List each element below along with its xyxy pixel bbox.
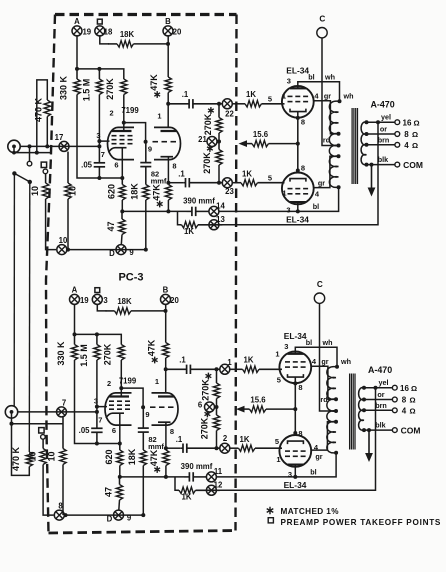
wire blk to COM	[364, 429, 392, 431]
wire 47K to plate node	[165, 358, 167, 369]
svg-text:11: 11	[214, 467, 223, 476]
resistor 1K upper	[230, 356, 282, 373]
transformer core laminations	[350, 374, 355, 450]
wire 47Kc down	[167, 200, 169, 211]
eyelet 17 (input)	[59, 141, 69, 151]
svg-text:5: 5	[275, 437, 279, 446]
svg-text:8: 8	[402, 396, 407, 405]
svg-text:COM: COM	[403, 160, 423, 170]
svg-text:8: 8	[404, 130, 409, 139]
eyelet 1	[220, 364, 230, 374]
svg-text:270K: 270K	[102, 343, 112, 365]
junction 47Kc bottom	[164, 475, 168, 479]
wire plate bl/wh to transformer	[295, 347, 337, 367]
svg-text:470 K: 470 K	[11, 446, 21, 471]
svg-text:wh: wh	[324, 72, 335, 81]
wire triode cathode to .1	[166, 447, 181, 449]
svg-text:wh: wh	[343, 91, 354, 100]
svg-text:6: 6	[198, 400, 203, 409]
wire screen gr to tap	[311, 366, 336, 399]
junction secondary or	[362, 398, 366, 402]
wire to eyelet 22	[219, 103, 222, 105]
svg-text:1K: 1K	[184, 227, 194, 236]
transformer core laminations	[352, 108, 357, 184]
svg-text:390 mmf: 390 mmf	[183, 197, 215, 206]
svg-text:22: 22	[225, 110, 234, 119]
svg-text:A-470: A-470	[371, 100, 395, 110]
svg-text:1: 1	[275, 350, 279, 359]
svg-text:47K: 47K	[149, 449, 159, 466]
tube 7199 pentode section envelope	[108, 127, 135, 159]
wire 14 line out	[219, 210, 298, 212]
eyelet 19 (A)	[72, 26, 82, 36]
svg-text:10: 10	[47, 451, 57, 461]
svg-text:or: or	[380, 125, 387, 134]
wire 47 to D9	[120, 235, 123, 245]
junction secondary or	[365, 132, 369, 136]
svg-text:EL-34: EL-34	[286, 215, 309, 225]
wire screen gr to tap	[314, 101, 339, 134]
takeoff circle 2	[43, 169, 48, 174]
eyelet B 20	[161, 294, 171, 304]
wire ground line	[14, 146, 51, 152]
jack ground lead	[12, 151, 16, 155]
svg-text:7: 7	[98, 415, 102, 424]
wire 470K loop top	[37, 80, 48, 153]
resistor 1K upper	[232, 90, 284, 107]
junction switch lower	[28, 180, 32, 184]
EL-34 upper cathode	[290, 109, 306, 112]
tube EL-34 upper envelope	[282, 86, 314, 118]
svg-text:gr: gr	[315, 452, 322, 461]
resistor 47	[103, 477, 122, 500]
wire lower screen gr	[311, 422, 336, 450]
junction 23 line	[217, 181, 221, 185]
tube EL-34 upper envelope	[279, 351, 311, 383]
junction bus/10R	[66, 248, 70, 252]
svg-text:A-470: A-470	[368, 365, 392, 375]
svg-text:15.6: 15.6	[250, 396, 266, 405]
svg-text:or: or	[377, 390, 384, 399]
wire brn to 4ohm	[364, 409, 392, 411]
junction pin8 lower	[296, 169, 300, 173]
junction B/18K	[164, 309, 168, 313]
wire A19 down	[74, 304, 76, 334]
svg-text:gr: gr	[324, 91, 331, 100]
svg-text:Ω: Ω	[412, 130, 418, 139]
wire pin8 cathode lead	[165, 422, 167, 448]
wire 470K lower loop	[12, 424, 30, 476]
7199 pentode cathode	[106, 413, 124, 418]
junction rail/1.5M	[97, 67, 101, 71]
svg-text:brn: brn	[375, 401, 387, 410]
capacitor .05	[79, 412, 103, 444]
junction plate node	[166, 102, 170, 106]
svg-text:21: 21	[198, 135, 207, 144]
wire 14 line out	[216, 476, 295, 478]
wire yel to 16ohm	[364, 387, 392, 389]
wire coupling plate to triode grid	[121, 388, 143, 407]
capacitor 82mmf	[138, 407, 149, 450]
svg-text:gr: gr	[318, 178, 325, 187]
wire 270K* to eyelet 21	[216, 399, 218, 408]
EL-34 lower plate	[288, 464, 304, 466]
svg-text:blk: blk	[375, 421, 385, 430]
svg-text:10: 10	[30, 186, 40, 196]
wire C to center tap rd	[322, 38, 339, 146]
wire switch bus left	[13, 173, 15, 406]
wire plate node to triode plate	[167, 104, 169, 128]
junction primary tap gr lower	[334, 420, 338, 424]
junction 620/47	[118, 475, 122, 479]
junction primary center tap rd	[337, 144, 341, 148]
svg-text:2: 2	[107, 379, 111, 388]
wire pin3 grid lead	[97, 407, 107, 412]
svg-text:6: 6	[112, 426, 116, 435]
svg-text:13: 13	[216, 215, 225, 224]
svg-text:20: 20	[170, 296, 179, 305]
svg-text:3: 3	[288, 470, 292, 479]
resistor 10 (left)	[30, 174, 49, 200]
svg-text:12: 12	[214, 480, 223, 489]
svg-text:47: 47	[103, 487, 113, 497]
junction secondary brn	[365, 143, 369, 147]
junction feedback/16ohm	[376, 120, 380, 124]
svg-text:A: A	[74, 17, 80, 26]
wire 330K to cathode line	[75, 360, 97, 444]
terminal C	[317, 28, 327, 38]
wire switch bus right	[28, 182, 31, 452]
svg-text:18K: 18K	[127, 448, 137, 465]
svg-text:270K: 270K	[199, 417, 209, 439]
svg-text:EL-34: EL-34	[284, 480, 307, 490]
terminal 16 ohm	[392, 385, 397, 390]
eyelet 23	[222, 178, 232, 188]
eyelet D 9	[116, 245, 126, 255]
svg-text:PREAMP POWER TAKEOFF POINTS: PREAMP POWER TAKEOFF POINTS	[281, 518, 442, 527]
wire lower plate bl	[294, 465, 296, 477]
wire yel to 16ohm	[367, 121, 395, 123]
svg-text:15.6: 15.6	[253, 130, 269, 139]
svg-text:.1: .1	[176, 435, 183, 444]
resistor 1K lower	[230, 435, 282, 451]
transformer A-470 primary winding	[329, 101, 338, 187]
eyelet 2	[220, 443, 230, 453]
wire eyelet-18 to 18K	[97, 304, 106, 311]
wire B20 down	[165, 304, 167, 342]
svg-text:1: 1	[157, 112, 161, 121]
svg-text:.05: .05	[79, 426, 91, 435]
input jack	[5, 406, 17, 418]
svg-text:47: 47	[106, 221, 116, 231]
junction ground/470K	[35, 151, 39, 155]
junction pin8 upper	[296, 116, 300, 120]
svg-text:bl: bl	[306, 338, 312, 347]
junction triode grid	[141, 405, 145, 409]
resistor *47K (cathode)	[152, 183, 172, 208]
capacitor 390 mmf	[181, 462, 213, 482]
input jack	[8, 140, 20, 152]
junction primary bottom	[337, 185, 341, 189]
wire to eyelet 22	[217, 368, 220, 370]
wire 620 to 47	[121, 200, 123, 211]
svg-text:16: 16	[400, 384, 409, 393]
resistor 270K* upper	[203, 104, 222, 135]
EL-34 upper grids dashes	[288, 96, 309, 101]
capacitor .1 lower	[176, 435, 220, 453]
svg-text:Ω: Ω	[413, 118, 419, 127]
junction secondary blk	[362, 428, 366, 432]
junction primary top	[335, 365, 339, 369]
legend matched 1%	[267, 507, 340, 516]
svg-text:620: 620	[106, 184, 116, 199]
junction bus/10R	[64, 513, 68, 517]
terminal 4 ohm	[395, 142, 400, 147]
resistor 270K* lower	[202, 142, 222, 174]
wire 1K jog	[175, 477, 178, 490]
resistor 1.5M	[81, 69, 102, 101]
svg-text:7199: 7199	[119, 377, 137, 386]
svg-text:bl: bl	[313, 202, 319, 211]
wire blk to COM	[367, 164, 395, 166]
wire bias line	[122, 210, 186, 212]
svg-text:Ω: Ω	[409, 407, 415, 416]
junction .05/cathode line	[97, 176, 101, 180]
wire lower plate bl	[297, 202, 299, 211]
resistor 18K (cathode)	[129, 183, 149, 200]
svg-text:gr: gr	[321, 357, 328, 366]
svg-text:47K: 47K	[149, 74, 159, 91]
EL-34 lower cathode	[290, 179, 306, 182]
svg-text:blk: blk	[378, 155, 388, 164]
svg-text:8: 8	[301, 118, 305, 127]
svg-text:1.5 M: 1.5 M	[79, 344, 89, 367]
7199 pentode cathode	[109, 148, 127, 153]
eyelet D 9	[114, 510, 124, 520]
svg-text:10: 10	[68, 186, 78, 196]
svg-text:2: 2	[109, 109, 113, 118]
transformer A-470 secondary winding	[361, 122, 366, 165]
capacitor .1 upper	[168, 90, 219, 109]
eyelet 17 (input)	[57, 407, 67, 417]
wire plate node to triode plate	[165, 369, 167, 393]
jack ground lead	[10, 422, 14, 426]
junction pentode plate	[119, 386, 123, 390]
svg-text:47K: 47K	[147, 339, 157, 356]
resistor 470K (lower input)	[11, 446, 33, 471]
capacitor 82mmf	[140, 142, 151, 185]
junction lower plate	[296, 209, 300, 213]
svg-text:3: 3	[96, 131, 100, 140]
svg-text:5: 5	[268, 94, 272, 103]
wire input hot line	[20, 145, 99, 147]
wire 18K down to bus	[142, 466, 144, 516]
wire pin8 cathode lead	[167, 157, 169, 183]
resistor 620	[106, 178, 125, 200]
capacitor .1 lower	[178, 170, 222, 188]
wire pentode plate lead	[120, 388, 122, 396]
svg-text:7: 7	[101, 150, 105, 159]
ground symbol	[365, 430, 373, 462]
terminal 16 ohm	[395, 120, 400, 125]
svg-text:14: 14	[216, 202, 225, 211]
svg-text:.1: .1	[179, 356, 186, 365]
junction lower plate	[293, 475, 297, 479]
resistor 270K	[105, 78, 127, 100]
wire bias rail	[75, 334, 122, 344]
7199 pentode grid (pin 3) dashes	[109, 401, 130, 409]
svg-text:470 K: 470 K	[34, 97, 44, 122]
resistor 1K feedback	[180, 222, 222, 236]
svg-text:18K: 18K	[117, 297, 132, 306]
svg-text:1K: 1K	[182, 492, 192, 501]
wire lower screen gr	[314, 156, 339, 187]
svg-text:8: 8	[172, 162, 176, 171]
svg-text:rd: rd	[320, 395, 327, 404]
junction cathodes/15.6	[296, 142, 300, 146]
eyelet 11	[206, 472, 216, 482]
junction A/330K	[73, 332, 77, 336]
tube 7199 triode section envelope	[152, 393, 179, 425]
svg-text:EL-34: EL-34	[286, 66, 309, 76]
capacitor .1 upper	[166, 356, 217, 375]
svg-text:PC-3: PC-3	[118, 272, 143, 284]
svg-text:18K: 18K	[129, 183, 139, 200]
tube 7199 pentode section envelope	[105, 393, 132, 425]
wire bl to coil	[298, 187, 339, 211]
svg-text:270K: 270K	[202, 152, 212, 174]
junction 620 top	[120, 176, 124, 180]
svg-text:1.5 M: 1.5 M	[81, 79, 91, 102]
svg-text:1: 1	[155, 377, 159, 386]
svg-text:8: 8	[298, 383, 302, 392]
svg-text:B: B	[163, 286, 169, 295]
wire brn to 4ohm	[367, 144, 395, 146]
wire pin6 cathode lead	[119, 413, 121, 443]
resistor *47K (cathode)	[149, 448, 169, 473]
svg-text:1K: 1K	[246, 90, 256, 99]
eyelet 19 (A)	[70, 294, 80, 304]
resistor *47K (plate load)	[147, 339, 169, 363]
svg-text:390 mmf: 390 mmf	[181, 462, 213, 471]
eyelet 10 (ground)	[54, 510, 64, 520]
wire cathode down	[297, 112, 299, 173]
eyelet 14	[209, 206, 219, 216]
junction triode cathode	[166, 181, 170, 185]
junction switch upper	[12, 171, 16, 175]
terminal 8 ohm	[395, 132, 400, 137]
resistor 47	[106, 211, 125, 234]
junction secondary brn	[362, 408, 366, 412]
wire 330K to cathode line	[77, 95, 99, 179]
wire 47 to D9	[118, 500, 121, 510]
svg-text:D: D	[109, 249, 115, 258]
svg-text:3: 3	[287, 77, 291, 86]
svg-text:16: 16	[403, 118, 412, 127]
junction B/18K	[166, 42, 170, 46]
resistor 330K	[56, 334, 78, 365]
junction triode grid	[144, 140, 148, 144]
resistor 15.6 with ground arrow	[236, 396, 295, 413]
wire ground bus	[67, 249, 146, 251]
transformer A-470 primary winding	[327, 367, 336, 453]
preamp takeoff square marker	[97, 19, 102, 24]
junction pin3	[97, 139, 101, 143]
svg-text:23: 23	[225, 187, 234, 196]
svg-text:bl: bl	[308, 72, 314, 81]
junction pin3	[95, 405, 99, 409]
PC-3 board dashed outline	[46, 15, 237, 534]
svg-text:mmf: mmf	[151, 177, 167, 186]
svg-text:D: D	[107, 515, 113, 524]
svg-text:9: 9	[148, 145, 152, 154]
eyelet 22	[222, 99, 232, 109]
svg-text:.1: .1	[178, 170, 185, 179]
resistor 620	[104, 444, 123, 466]
svg-text:3: 3	[94, 396, 98, 405]
svg-text:1: 1	[227, 358, 232, 367]
7199 triode plate	[158, 395, 175, 397]
wire 47Kc down	[165, 466, 167, 477]
wire 18K down to bus	[145, 200, 147, 250]
7199 pentode plate	[110, 395, 130, 397]
wire or to 8ohm	[367, 133, 395, 135]
junction secondary yel	[365, 120, 369, 124]
terminal 8 ohm	[392, 397, 397, 402]
terminal COM	[392, 428, 397, 433]
junction 620 top	[118, 442, 122, 446]
wire 620 to 47	[119, 466, 121, 477]
svg-text:3: 3	[103, 296, 108, 305]
junction primary tap gr lower	[337, 154, 341, 158]
junction lower ground	[10, 422, 14, 426]
EL-34 lower plate	[290, 201, 306, 203]
wire 270K to pentode plate	[120, 360, 122, 388]
svg-text:7199: 7199	[121, 106, 139, 115]
wire bl to coil	[295, 453, 336, 477]
junction A/330K	[75, 67, 79, 71]
junction bus/18K	[141, 513, 145, 517]
resistor 18K (cathode)	[127, 448, 147, 465]
svg-text:7: 7	[62, 398, 66, 407]
svg-text:8: 8	[58, 502, 63, 511]
svg-text:4: 4	[402, 407, 407, 416]
wire cathode down	[294, 377, 296, 435]
eyelet 10 (ground)	[57, 245, 67, 255]
wire input hot line	[18, 411, 97, 413]
svg-text:20: 20	[173, 28, 182, 37]
wire 10R down	[67, 199, 69, 250]
legend preamp power takeoff points	[268, 518, 441, 527]
svg-text:2: 2	[223, 434, 228, 443]
junction 620/47	[120, 209, 124, 213]
svg-text:Ω: Ω	[409, 396, 415, 405]
junction 47Kc bottom	[166, 209, 170, 213]
resistor 270K* upper	[200, 369, 219, 400]
wire feedback line	[219, 122, 378, 225]
EL-34 lower cathode	[288, 441, 304, 444]
resistor 18K	[106, 297, 166, 314]
wire cathode line	[99, 177, 122, 179]
resistor *47K (plate load)	[149, 74, 171, 98]
junction hot/470K	[45, 144, 49, 148]
svg-text:10: 10	[59, 236, 68, 245]
eyelet 21	[207, 137, 217, 147]
svg-text:EL-34: EL-34	[284, 331, 307, 341]
svg-text:270K: 270K	[105, 78, 115, 100]
wire switch blade	[14, 173, 29, 182]
7199 triode grid (pin 9) dashes	[150, 406, 174, 408]
